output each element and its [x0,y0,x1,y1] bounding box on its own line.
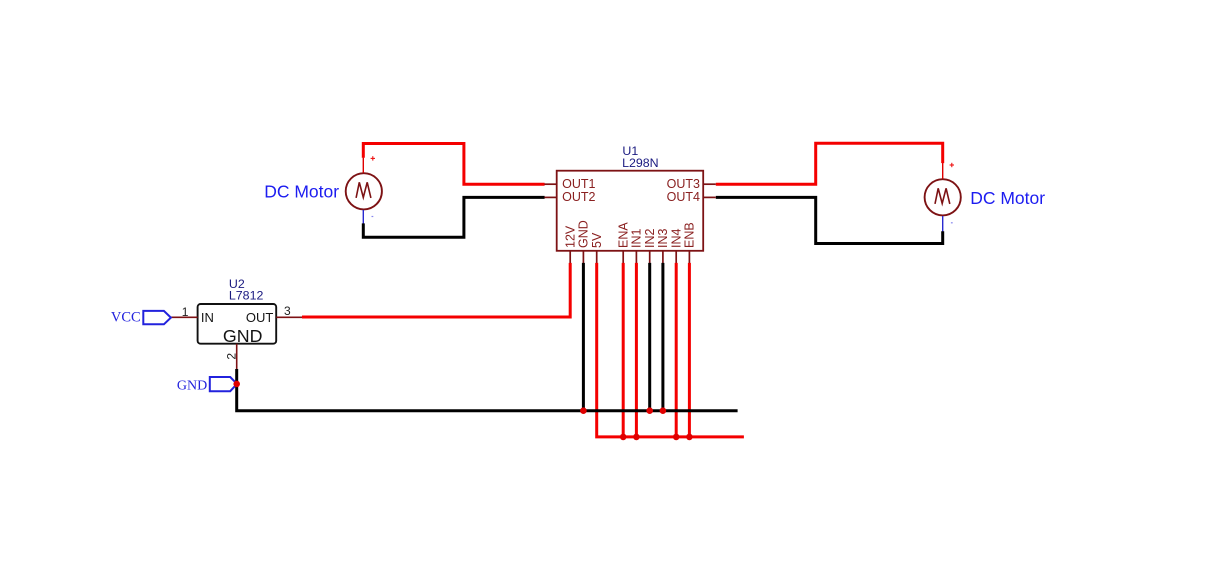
svg-text:ENB: ENB [683,222,697,248]
svg-text:OUT3: OUT3 [667,177,700,191]
svg-text:3: 3 [284,304,291,318]
svg-text:IN1: IN1 [630,229,644,249]
net flag VCC symbol [143,311,171,324]
motor M1 (left DC motor) [346,173,382,209]
wire U1 IN2 down (black) [648,263,651,411]
wire U1 IN3 down (black) [661,263,664,411]
svg-text:GND: GND [223,326,263,346]
net flag GND symbol [210,377,237,391]
svg-text:IN: IN [201,310,214,325]
IC U1 L298N body [557,171,704,251]
U2 pin 2 stub [236,344,238,370]
svg-text:DC Motor: DC Motor [970,188,1045,208]
U1 pin OUT2 stub [544,196,556,198]
wire U1 OUT4 to M2- (black) [716,197,943,243]
U1 pin OUT1 stub [544,183,556,185]
motor M2 (right DC motor) [925,179,961,215]
motor M2 - pin [942,216,944,232]
wire U1 5V down to +5V bus (red) [597,263,744,437]
U1 pin OUT3 stub [703,183,716,185]
svg-text:ENA: ENA [617,222,631,248]
motor M2 - mark [951,222,953,224]
svg-text:OUT4: OUT4 [667,190,700,204]
svg-text:1: 1 [182,305,189,319]
wire U1 IN1 down (red) [635,263,638,437]
svg-text:GND: GND [577,220,591,248]
motor M1 + mark [371,156,375,160]
U2 pin 3 stub [276,316,302,318]
svg-text:OUT1: OUT1 [562,177,595,191]
junction dot IN2 on ground bus [646,407,653,414]
svg-text:L298N: L298N [622,156,659,170]
junction dot IN4 on 5V bus [673,434,680,441]
junction dot ENA on 5V bus [620,434,627,441]
svg-text:IN2: IN2 [643,229,657,249]
wire U1 12V to U2 OUT (red) [302,263,570,317]
wire U1 GND down (black) [582,263,585,411]
junction dot ENB on 5V bus [686,434,693,441]
U2 pin 1 stub [171,316,198,318]
svg-text:12V: 12V [564,225,578,248]
wire M1- to U1 OUT2 (black) [363,197,544,237]
svg-text:OUT: OUT [246,310,274,325]
svg-text:5V: 5V [590,232,604,248]
wire U1 OUT3 to M2+ (red) [716,143,943,184]
junction dot GND flag [233,381,240,388]
U1 pin OUT4 stub [703,196,716,198]
junction dot IN3 on ground bus [660,407,667,414]
motor M1 + pin [362,158,364,173]
svg-text:DC Motor: DC Motor [264,182,339,202]
junction dot IN1 on 5V bus [633,434,640,441]
U1 bottom pin stubs 12V GND 5V ENA IN1 IN2 IN3 IN4 ENB [570,251,689,263]
wire M1+ to U1 OUT1 (red) [363,144,544,185]
junction dot GND pin on ground bus [580,407,587,414]
svg-text:2: 2 [224,353,238,360]
motor M1 - mark [372,216,374,218]
svg-text:OUT2: OUT2 [562,190,595,204]
wire U1 ENA down (red) [622,263,625,437]
motor M2 + mark [950,163,954,167]
wire U2 GND to ground bus (black) [237,369,738,411]
svg-text:GND: GND [177,378,207,393]
wire U1 IN4 down (red) [675,263,678,437]
motor M2 + pin [942,163,944,179]
svg-text:L7812: L7812 [229,289,264,303]
svg-text:IN3: IN3 [656,229,670,249]
svg-text:IN4: IN4 [670,229,684,249]
motor M1 - pin [362,210,364,224]
wire U1 ENB down (red) [688,263,691,437]
regulator U2 L7812 body [198,304,277,344]
svg-text:VCC: VCC [111,310,141,326]
